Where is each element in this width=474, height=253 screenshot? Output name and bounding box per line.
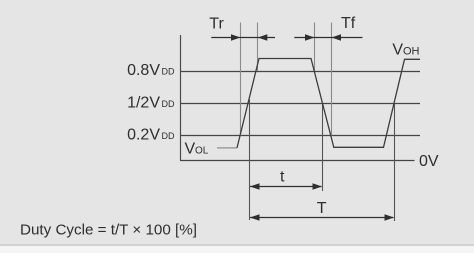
- svg-text:Tf: Tf: [341, 15, 356, 32]
- svg-text:0.8V: 0.8V: [127, 62, 160, 79]
- svg-text:t: t: [280, 169, 285, 186]
- svg-text:0V: 0V: [419, 153, 439, 170]
- svg-text:OH: OH: [403, 46, 420, 58]
- svg-text:0.2V: 0.2V: [127, 126, 160, 143]
- svg-text:DD: DD: [162, 67, 175, 77]
- svg-text:OL: OL: [195, 145, 209, 156]
- svg-text:V: V: [185, 141, 196, 158]
- svg-text:Tr: Tr: [209, 16, 224, 33]
- svg-text:DD: DD: [162, 99, 175, 109]
- svg-text:Duty Cycle = t/T × 100 [%]: Duty Cycle = t/T × 100 [%]: [20, 222, 197, 239]
- svg-text:DD: DD: [162, 131, 175, 141]
- svg-text:T: T: [317, 200, 327, 217]
- svg-text:1/2V: 1/2V: [127, 94, 160, 111]
- svg-text:V: V: [392, 42, 403, 59]
